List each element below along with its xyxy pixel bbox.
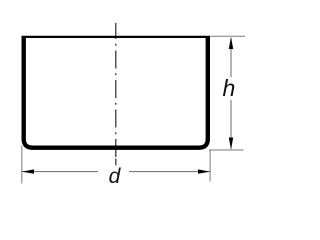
- svg-text:d: d: [109, 165, 122, 188]
- svg-text:h: h: [223, 75, 236, 101]
